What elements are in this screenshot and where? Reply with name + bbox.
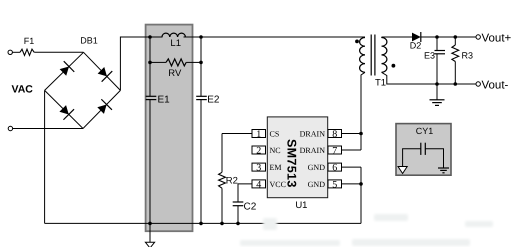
output terminal Vout+	[476, 35, 480, 39]
diode D-tl (points to top vertex)	[58, 61, 75, 78]
diode D-tr (points to right vertex)	[96, 65, 113, 82]
bridge edge wire (bottom-left)	[45, 90, 83, 128]
node (E3 bottom junction)	[435, 82, 439, 86]
svg-text:SM7513: SM7513	[285, 139, 299, 188]
svg-text:E1: E1	[158, 94, 171, 105]
svg-text:2: 2	[256, 146, 261, 157]
svg-text:R2: R2	[226, 176, 238, 187]
diode D-br (points to right vertex)	[95, 99, 112, 116]
svg-text:Vout+: Vout+	[482, 32, 511, 44]
wire (DC+ rail from L1 to transformer primary)	[184, 36, 366, 38]
wire (bottom terminal to bridge bottom vertex)	[13, 128, 83, 130]
wire (D2 cathode to Vout+ terminal)	[421, 36, 476, 38]
core	[370, 35, 372, 76]
bridge edge wire (top-right)	[84, 52, 121, 90]
wire (bottom DC- rail)	[45, 222, 361, 224]
varistor RV (parallel with L1)	[150, 59, 201, 79]
node (pin 8 drain junction)	[359, 132, 363, 136]
op-amp U1 (controller IC SM7513)	[267, 117, 327, 211]
svg-text:RV: RV	[168, 68, 182, 79]
bridge rectifier DB1	[45, 36, 121, 129]
capacitor E2	[196, 94, 220, 105]
capacitor E1	[146, 94, 170, 105]
input terminal (line, bottom)	[8, 126, 12, 130]
wire (pin 8 to drain bus)	[342, 133, 362, 135]
svg-text:Vout-: Vout-	[482, 79, 509, 91]
output terminal Vout-	[476, 82, 480, 86]
bridge edge wire (top-left)	[45, 52, 84, 90]
wire (E1 bottom plate to DC- rail)	[149, 100, 151, 224]
svg-text:CS: CS	[270, 130, 280, 139]
svg-text:R3: R3	[462, 51, 474, 61]
node (pin 5 gnd junction)	[359, 182, 363, 186]
wire (gnd bus vertical to DC- rail)	[360, 167, 362, 223]
wire (drain bus vertical to transformer primary)	[361, 72, 365, 150]
input terminal (line, top)	[8, 50, 12, 54]
svg-text:E2: E2	[207, 94, 220, 105]
node (E3 top junction)	[435, 35, 439, 39]
primary winding	[360, 38, 365, 73]
wire (Vout- rail to earth ground)	[436, 84, 438, 100]
svg-text:3: 3	[256, 163, 261, 174]
svg-text:T1: T1	[375, 78, 386, 89]
diode D-bl (points to bottom vertex)	[57, 103, 74, 120]
diode D2	[410, 32, 422, 51]
pin 1 box	[252, 129, 266, 140]
pin 3 box	[252, 163, 266, 174]
svg-text:1: 1	[256, 129, 261, 140]
wire (pin 6 to gnd bus)	[342, 166, 362, 168]
svg-text:VCC: VCC	[270, 180, 286, 189]
node (rail / L1-RV right junction)	[199, 35, 203, 39]
capacitor CY1 (Y-cap block)	[396, 124, 451, 176]
EMI filter block (gray box around L1/RV/E1)	[146, 25, 193, 232]
svg-text:GND: GND	[308, 180, 326, 189]
svg-text:E3: E3	[424, 51, 435, 61]
svg-text:8: 8	[332, 129, 337, 140]
pin 4 box	[252, 179, 266, 190]
node (primary phase dot)	[355, 40, 359, 44]
svg-text:GND: GND	[308, 163, 326, 172]
wire (left branch vertical x=150, rail to E1 top plate)	[149, 37, 151, 96]
svg-text:4: 4	[256, 179, 261, 190]
inductor L1	[162, 33, 185, 49]
pin 7 box	[328, 146, 342, 157]
node (E2 branch on DC- rail)	[199, 222, 203, 226]
node (RV right junction)	[199, 61, 203, 65]
secondary winding	[382, 38, 387, 73]
node (R3 bottom junction)	[454, 82, 458, 86]
resistor R3	[452, 37, 473, 84]
wire (CY1 left lead)	[403, 149, 421, 167]
resistor R2	[219, 134, 252, 224]
pin 5 box	[328, 179, 342, 190]
ground (chassis, CY1 left)	[398, 167, 407, 174]
ground (earth, secondary)	[430, 100, 445, 106]
capacitor E3	[424, 37, 445, 84]
transformer T1	[355, 35, 395, 89]
wire (secondary top lead to D2)	[381, 36, 383, 39]
wire (secondary bottom lead down and right to Vout- rail)	[382, 72, 477, 84]
wire (terminal to fuse F1)	[12, 51, 20, 53]
node (C2 on DC- rail)	[236, 222, 240, 226]
pin 6 box	[328, 163, 342, 174]
svg-text:DRAIN: DRAIN	[300, 130, 326, 139]
svg-text:7: 7	[332, 146, 337, 157]
node (rail / L1-RV left junction)	[148, 35, 152, 39]
svg-text:5: 5	[332, 179, 337, 190]
svg-text:DRAIN: DRAIN	[300, 146, 326, 155]
svg-text:NC: NC	[270, 146, 281, 155]
svg-text:VAC: VAC	[12, 84, 34, 96]
capacitor C2	[233, 184, 257, 224]
wire (right branch vertical x=201, rail to E2 top plate)	[200, 37, 202, 96]
wire (bridge right vertex up to DC+ rail)	[120, 37, 162, 90]
ground (earth, CY1 right)	[438, 168, 449, 173]
svg-text:F1: F1	[24, 36, 35, 46]
node (RV left junction)	[148, 61, 152, 65]
bridge edge wire (bottom-right)	[83, 90, 120, 128]
node (secondary phase dot)	[392, 64, 396, 68]
svg-text:EM: EM	[270, 163, 282, 172]
fuse F1	[20, 36, 34, 55]
pin 2 box	[252, 146, 266, 157]
svg-text:U1: U1	[295, 200, 307, 211]
wire (fuse to bridge top vertex)	[34, 51, 83, 53]
wire (pin 5 to gnd bus)	[342, 183, 362, 185]
wire (E2 bottom plate to DC- rail)	[200, 100, 202, 224]
svg-text:6: 6	[332, 163, 337, 174]
wire (CY1 right lead)	[425, 149, 443, 168]
wire (bridge left vertex down to DC- rail)	[44, 90, 46, 223]
pin 8 box	[328, 129, 342, 140]
node (R2 on DC- rail)	[220, 222, 224, 226]
svg-text:DB1: DB1	[80, 36, 98, 46]
CY1 plates	[420, 143, 422, 155]
svg-text:C2: C2	[244, 202, 257, 213]
node (R3 top junction)	[454, 35, 458, 39]
wire (pin 7 to drain bus)	[342, 149, 362, 151]
wire (DC- rail to chassis ground)	[149, 223, 151, 242]
svg-text:D2: D2	[410, 41, 422, 51]
ground (chassis, under EMI block)	[145, 242, 154, 247]
svg-text:L1: L1	[170, 38, 181, 49]
svg-text:CY1: CY1	[416, 126, 434, 136]
node (E1 branch on DC- rail)	[148, 222, 152, 226]
